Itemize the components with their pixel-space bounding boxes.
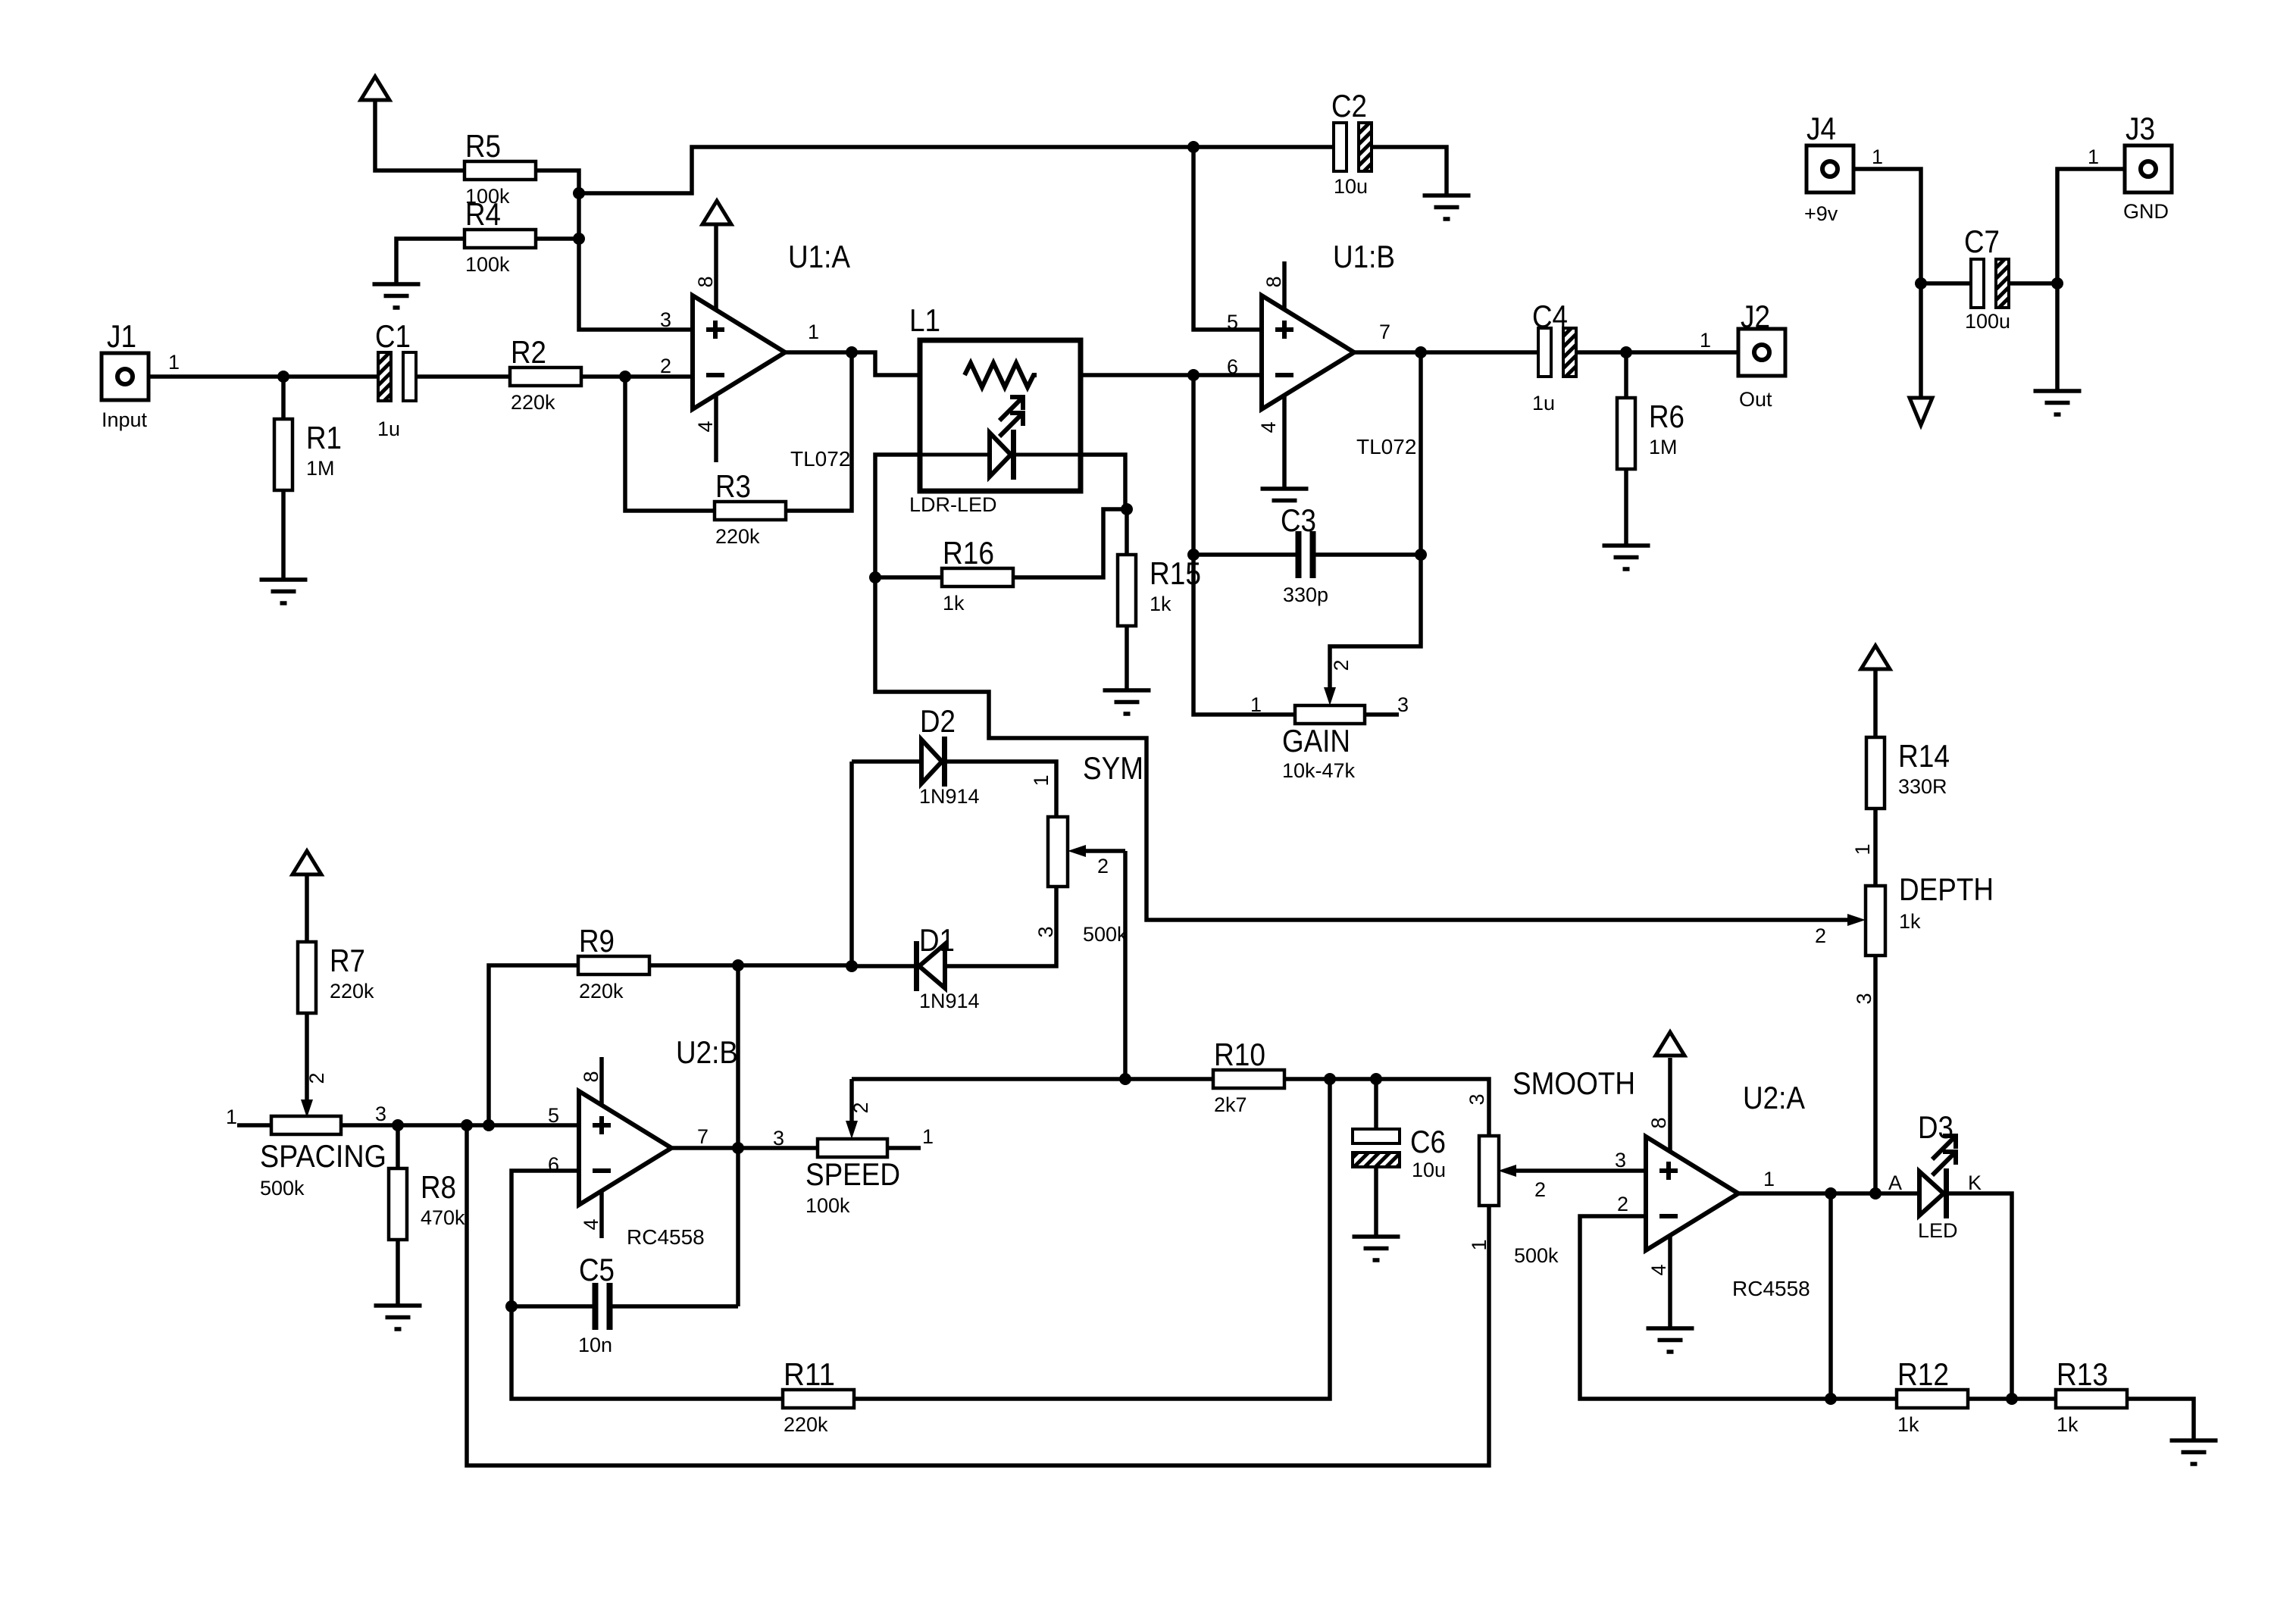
svg-text:100u: 100u — [1965, 310, 2010, 333]
svg-text:U2:A: U2:A — [1743, 1080, 1805, 1115]
svg-text:1: 1 — [1250, 693, 1262, 716]
svg-text:Input: Input — [102, 408, 148, 431]
svg-text:2: 2 — [849, 1102, 872, 1113]
svg-text:R13: R13 — [2057, 1356, 2108, 1392]
svg-text:R11: R11 — [784, 1356, 835, 1392]
svg-text:C2: C2 — [1331, 88, 1367, 124]
svg-text:J3: J3 — [2126, 111, 2155, 146]
svg-text:2: 2 — [305, 1072, 328, 1084]
svg-text:SMOOTH: SMOOTH — [1512, 1065, 1635, 1101]
svg-text:D3: D3 — [1918, 1109, 1953, 1145]
svg-text:2: 2 — [1815, 924, 1826, 947]
svg-text:1: 1 — [922, 1125, 934, 1148]
svg-text:1M: 1M — [1649, 436, 1678, 458]
svg-text:2: 2 — [1330, 659, 1353, 671]
svg-text:R2: R2 — [511, 334, 546, 370]
svg-text:2: 2 — [1534, 1178, 1546, 1201]
svg-text:2: 2 — [660, 355, 671, 377]
svg-text:U1:A: U1:A — [788, 239, 850, 274]
svg-text:1: 1 — [1851, 843, 1874, 855]
svg-text:1u: 1u — [377, 418, 400, 440]
svg-text:LED: LED — [1918, 1219, 1958, 1242]
svg-text:2: 2 — [1097, 855, 1109, 877]
svg-text:220k: 220k — [715, 525, 760, 548]
svg-text:C1: C1 — [375, 318, 411, 354]
svg-text:5: 5 — [1227, 311, 1238, 333]
svg-text:5: 5 — [548, 1104, 559, 1127]
svg-text:LDR-LED: LDR-LED — [909, 493, 997, 516]
svg-text:SPEED: SPEED — [805, 1156, 900, 1192]
svg-text:R4: R4 — [465, 196, 501, 232]
svg-text:R3: R3 — [715, 468, 751, 504]
svg-text:8: 8 — [1262, 276, 1285, 287]
svg-text:1N914: 1N914 — [919, 990, 980, 1012]
svg-text:8: 8 — [1647, 1117, 1670, 1128]
svg-text:3: 3 — [1853, 993, 1875, 1004]
svg-text:L1: L1 — [909, 302, 940, 338]
svg-text:8: 8 — [580, 1071, 602, 1082]
svg-text:470k: 470k — [421, 1206, 465, 1229]
svg-text:3: 3 — [1465, 1093, 1488, 1105]
svg-text:C3: C3 — [1281, 502, 1316, 538]
svg-text:100k: 100k — [465, 253, 510, 276]
svg-text:1: 1 — [2088, 145, 2099, 168]
svg-text:SPACING: SPACING — [260, 1138, 386, 1174]
svg-text:R14: R14 — [1898, 738, 1950, 774]
svg-text:6: 6 — [1227, 355, 1238, 378]
svg-text:220k: 220k — [330, 980, 374, 1002]
svg-text:1: 1 — [1468, 1239, 1491, 1250]
svg-text:4: 4 — [1647, 1264, 1670, 1275]
svg-text:R9: R9 — [579, 923, 615, 959]
svg-text:1u: 1u — [1532, 392, 1555, 414]
svg-text:1: 1 — [808, 321, 819, 343]
svg-text:R8: R8 — [421, 1169, 456, 1205]
svg-text:10u: 10u — [1412, 1159, 1446, 1181]
svg-text:R12: R12 — [1897, 1356, 1949, 1392]
svg-text:A: A — [1888, 1171, 1902, 1194]
svg-text:4: 4 — [694, 421, 717, 432]
svg-text:330p: 330p — [1283, 583, 1328, 606]
svg-text:RC4558: RC4558 — [1732, 1277, 1810, 1300]
svg-text:500k: 500k — [1514, 1244, 1559, 1267]
svg-text:3: 3 — [1034, 926, 1057, 937]
svg-text:Out: Out — [1739, 388, 1772, 411]
svg-text:SYM: SYM — [1083, 750, 1143, 786]
svg-text:TL072: TL072 — [1356, 435, 1416, 458]
svg-text:D1: D1 — [919, 922, 955, 958]
svg-text:100k: 100k — [805, 1194, 850, 1217]
svg-text:GAIN: GAIN — [1282, 723, 1350, 759]
svg-text:1k: 1k — [2057, 1413, 2079, 1436]
svg-text:R16: R16 — [943, 535, 994, 571]
svg-text:GND: GND — [2123, 200, 2169, 223]
svg-text:6: 6 — [548, 1153, 559, 1176]
svg-text:U1:B: U1:B — [1333, 239, 1395, 274]
svg-text:1: 1 — [1872, 145, 1883, 168]
svg-text:1: 1 — [1700, 329, 1711, 352]
svg-text:1: 1 — [1763, 1168, 1775, 1190]
svg-text:R10: R10 — [1214, 1037, 1265, 1072]
svg-text:1k: 1k — [1150, 593, 1171, 615]
svg-text:1M: 1M — [306, 457, 335, 480]
svg-text:1k: 1k — [1899, 910, 1921, 933]
svg-text:2: 2 — [1617, 1193, 1628, 1215]
svg-text:K: K — [1968, 1171, 1982, 1194]
svg-text:R7: R7 — [330, 943, 365, 978]
svg-text:7: 7 — [697, 1125, 709, 1148]
svg-text:3: 3 — [660, 308, 671, 331]
svg-text:TL072: TL072 — [790, 447, 850, 471]
svg-text:C5: C5 — [579, 1252, 615, 1287]
svg-text:D2: D2 — [920, 703, 956, 739]
svg-text:C4: C4 — [1532, 299, 1568, 334]
svg-text:500k: 500k — [1083, 923, 1128, 946]
svg-text:R6: R6 — [1649, 399, 1684, 434]
svg-text:220k: 220k — [579, 980, 624, 1002]
svg-text:C6: C6 — [1410, 1124, 1446, 1159]
svg-text:4: 4 — [1257, 421, 1280, 433]
svg-text:8: 8 — [694, 276, 717, 287]
svg-text:4: 4 — [580, 1218, 602, 1230]
svg-text:330R: 330R — [1898, 775, 1947, 798]
svg-text:500k: 500k — [260, 1177, 305, 1200]
svg-text:7: 7 — [1379, 321, 1390, 343]
svg-text:3: 3 — [773, 1127, 784, 1150]
svg-text:220k: 220k — [511, 391, 555, 414]
svg-text:DEPTH: DEPTH — [1899, 871, 1994, 907]
svg-text:R1: R1 — [306, 420, 342, 455]
svg-text:1: 1 — [1030, 774, 1053, 786]
svg-text:J4: J4 — [1806, 111, 1836, 146]
svg-text:10n: 10n — [578, 1334, 612, 1356]
svg-text:3: 3 — [1397, 693, 1409, 716]
svg-text:U2:B: U2:B — [676, 1034, 738, 1070]
svg-text:1: 1 — [226, 1106, 237, 1128]
svg-text:R5: R5 — [465, 128, 501, 164]
svg-text:C7: C7 — [1964, 224, 2000, 259]
svg-text:1N914: 1N914 — [919, 785, 980, 808]
svg-text:1k: 1k — [943, 592, 965, 615]
svg-text:J1: J1 — [107, 318, 136, 354]
svg-text:2k7: 2k7 — [1214, 1093, 1247, 1116]
svg-text:3: 3 — [375, 1103, 386, 1125]
svg-text:10k-47k: 10k-47k — [1282, 759, 1356, 782]
svg-text:RC4558: RC4558 — [627, 1225, 705, 1249]
svg-text:3: 3 — [1615, 1149, 1626, 1171]
svg-text:1: 1 — [168, 351, 180, 374]
svg-text:+9v: +9v — [1804, 202, 1838, 225]
svg-text:R15: R15 — [1150, 555, 1201, 591]
svg-text:220k: 220k — [784, 1413, 828, 1436]
svg-text:1k: 1k — [1897, 1413, 1919, 1436]
svg-text:10u: 10u — [1334, 175, 1368, 198]
svg-text:J2: J2 — [1741, 299, 1770, 334]
